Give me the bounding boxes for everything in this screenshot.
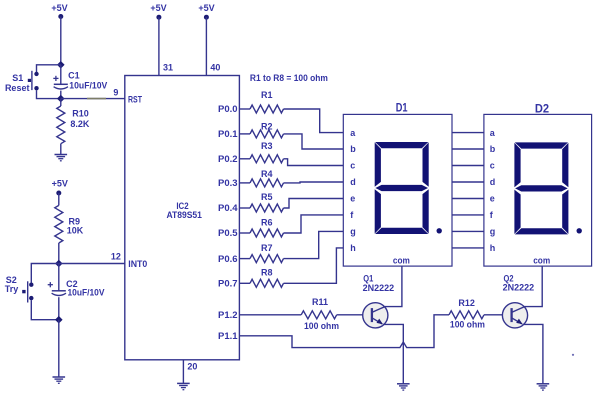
svg-text:10K: 10K	[67, 226, 84, 236]
com wire D1 to Q1 collector	[385, 266, 402, 307]
7-segment digit D1	[375, 142, 429, 234]
pin 20 wire	[182, 360, 184, 384]
svg-text:b: b	[350, 144, 356, 154]
op-amp U1 IC2 AT89S51 box	[125, 76, 240, 360]
display D2 box	[484, 114, 592, 266]
wire P1.2 to R11	[239, 314, 301, 316]
ground below R10	[55, 154, 68, 156]
svg-text:P0.3: P0.3	[218, 178, 238, 188]
svg-text:P0.5: P0.5	[218, 228, 238, 238]
svg-text:R5: R5	[261, 192, 273, 202]
svg-text:8.2K: 8.2K	[70, 119, 90, 129]
wire R3 to segment c	[284, 159, 344, 166]
wire INT0	[59, 263, 125, 265]
svg-text:12: 12	[111, 251, 121, 261]
svg-text:c: c	[350, 161, 355, 171]
wire pin31	[158, 17, 160, 75]
svg-text:R11: R11	[312, 297, 328, 307]
svg-text:R6: R6	[261, 218, 273, 228]
wire S1 top	[37, 65, 61, 72]
svg-text:2N2222: 2N2222	[363, 283, 395, 293]
svg-text:f: f	[490, 210, 494, 220]
svg-text:31: 31	[163, 63, 173, 73]
svg-text:P0.1: P0.1	[218, 129, 238, 139]
svg-text:R1 to R8 = 100 ohm: R1 to R8 = 100 ohm	[250, 73, 328, 83]
svg-text:AT89S51: AT89S51	[166, 210, 202, 220]
wire S2 bottom	[31, 300, 59, 320]
resistor R8	[239, 282, 250, 284]
svg-text:R1: R1	[261, 90, 273, 100]
svg-text:g: g	[490, 227, 496, 237]
svg-text:d: d	[490, 177, 496, 187]
svg-text:R7: R7	[261, 243, 273, 253]
svg-text:c: c	[490, 161, 495, 171]
resistor R11	[301, 311, 337, 319]
svg-text:P0.6: P0.6	[218, 254, 238, 264]
wire R1 to segment a	[284, 109, 344, 133]
wire S2 top	[31, 264, 59, 283]
svg-text:C1: C1	[68, 71, 80, 81]
svg-text:10uF/10V: 10uF/10V	[69, 81, 107, 91]
svg-text:+5V: +5V	[150, 3, 166, 13]
wire P1.1 to R12 (hop over emitter)	[239, 315, 449, 348]
svg-text:g: g	[350, 227, 356, 237]
wire R7 to segment g	[284, 231, 344, 258]
node INT0 junction	[55, 260, 63, 268]
decimal point D1	[437, 228, 442, 233]
svg-text:+5V: +5V	[51, 3, 67, 13]
wire S1 bottom	[37, 90, 61, 98]
wire R8 to segment h	[284, 248, 344, 283]
svg-text:a: a	[490, 128, 496, 138]
svg-text:P0.0: P0.0	[218, 104, 238, 114]
svg-text:h: h	[350, 243, 356, 253]
svg-text:Reset: Reset	[5, 83, 30, 93]
svg-text:R10: R10	[72, 109, 89, 119]
svg-text:D2: D2	[535, 102, 549, 116]
svg-text:a: a	[350, 128, 356, 138]
svg-text:+5V: +5V	[198, 3, 214, 13]
svg-text:com: com	[533, 255, 550, 265]
ground Q2	[537, 383, 550, 385]
svg-text:d: d	[350, 177, 356, 187]
svg-text:S1: S1	[12, 73, 23, 83]
svg-text:20: 20	[187, 362, 197, 372]
com wire D2 to Q2 collector	[525, 266, 543, 307]
svg-text:R3: R3	[261, 141, 273, 151]
svg-text:9: 9	[113, 88, 118, 98]
svg-text:40: 40	[210, 63, 220, 73]
resistor R6	[239, 232, 250, 234]
resistor R12	[449, 311, 484, 319]
wire R6 to segment f	[284, 215, 344, 233]
pushbutton S1	[34, 72, 38, 76]
svg-text:INT0: INT0	[128, 259, 147, 269]
svg-text:P1.1: P1.1	[218, 331, 238, 341]
svg-text:2N2222: 2N2222	[503, 283, 535, 293]
node junction below C2	[55, 316, 63, 324]
svg-text:b: b	[490, 144, 496, 154]
svg-text:R2: R2	[261, 122, 273, 132]
svg-text:100 ohm: 100 ohm	[304, 321, 339, 331]
resistor R10	[60, 99, 62, 106]
svg-text:R4: R4	[261, 169, 273, 179]
wire pin40	[205, 17, 207, 75]
svg-text:100 ohm: 100 ohm	[450, 320, 485, 330]
svg-text:Try: Try	[5, 284, 19, 294]
wire R11 to Q1 base	[337, 314, 372, 316]
svg-text:RST: RST	[128, 95, 142, 105]
resistor R5	[239, 207, 250, 209]
ground below C2	[53, 376, 66, 378]
svg-text:P0.7: P0.7	[218, 279, 238, 289]
svg-text:+5V: +5V	[52, 179, 68, 189]
ground pin 20	[177, 382, 190, 384]
svg-text:P1.2: P1.2	[218, 310, 238, 320]
svg-text:R8: R8	[261, 268, 273, 278]
pushbutton S2	[29, 283, 33, 287]
wire RST	[61, 98, 125, 100]
resistor R1	[239, 108, 250, 110]
stray speck	[572, 354, 574, 356]
svg-text:h: h	[490, 243, 496, 253]
resistor R3	[239, 158, 250, 160]
wire to ground	[58, 320, 60, 377]
svg-text:P0.2: P0.2	[218, 154, 238, 164]
transistor Q2 2N2222	[502, 303, 527, 328]
wire Q2 emitter to ground	[523, 324, 543, 383]
wire R4 to segment d	[284, 181, 344, 184]
resistor R2	[239, 133, 250, 135]
svg-text:10uF/10V: 10uF/10V	[68, 287, 105, 297]
resistor R7	[239, 258, 250, 260]
capacitor C2	[58, 264, 60, 291]
wire R10 to ground	[60, 144, 62, 155]
svg-text:com: com	[393, 255, 410, 265]
svg-text:e: e	[350, 194, 355, 204]
7-segment digit D2	[514, 142, 568, 234]
svg-text:f: f	[350, 210, 354, 220]
resistor R4	[239, 182, 250, 184]
wire R12 to Q2 base	[484, 314, 512, 316]
svg-text:e: e	[490, 194, 495, 204]
wire gray segment	[87, 98, 106, 100]
node A junction top of C1	[57, 61, 65, 69]
wire R2 to segment b	[284, 134, 344, 149]
svg-text:P0.4: P0.4	[218, 203, 238, 213]
capacitor C1	[60, 65, 62, 85]
node RST junction	[57, 95, 65, 103]
ground Q1	[397, 383, 410, 385]
svg-text:R12: R12	[458, 298, 475, 308]
decimal point D2	[577, 228, 582, 233]
wire R5 to segment e	[284, 199, 344, 209]
display D1 box	[343, 114, 452, 266]
svg-text:D1: D1	[396, 101, 408, 115]
wires D1 to D2 segments	[452, 132, 484, 134]
wire Q1 emitter to ground	[383, 324, 403, 383]
transistor Q1 2N2222	[363, 303, 388, 328]
resistor R9	[55, 205, 63, 243]
